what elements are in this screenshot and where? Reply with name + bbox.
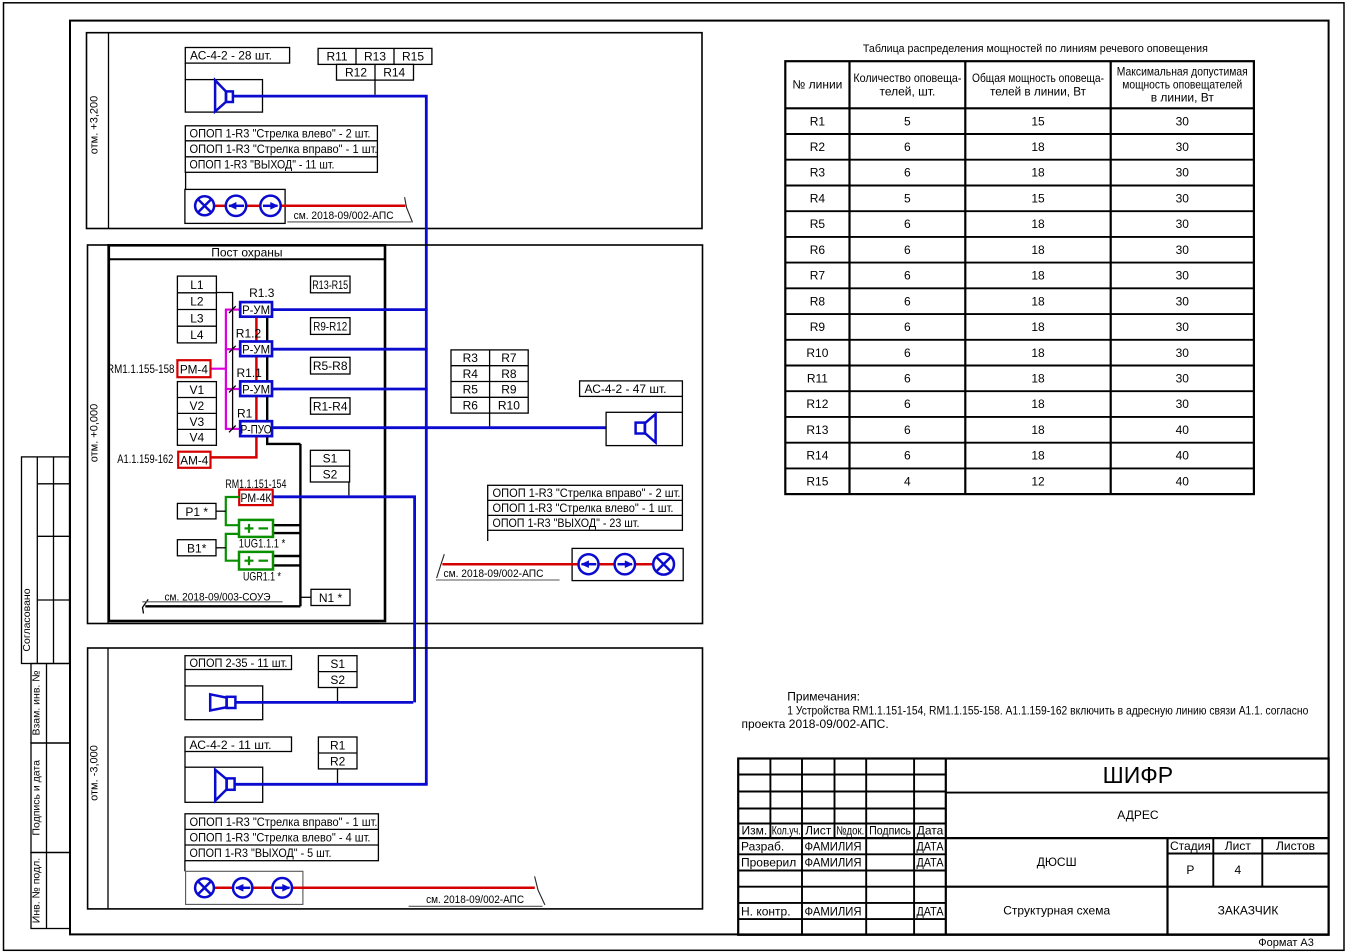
svg-text:R10: R10 [498,399,520,413]
svg-text:RM1.1.151-154: RM1.1.151-154 [225,477,286,491]
label box ОПОП 2-35 - 11 шт. [185,656,292,670]
svg-text:S1: S1 [330,657,345,671]
svg-text:Количество оповеща-: Количество оповеща- [853,71,961,85]
svg-text:L4: L4 [190,328,204,342]
annotation см. 2018-09/003-СОУЭ [142,591,282,603]
svg-text:R13: R13 [806,423,828,437]
svg-text:30: 30 [1176,114,1190,128]
device РМ-4 [177,360,210,377]
svg-text:4: 4 [904,474,911,488]
horn speaker symbol [210,694,235,710]
lamp arrow-left circle (bottom) [233,878,252,897]
svg-text:V4: V4 [190,431,205,445]
svg-text:R13-R15: R13-R15 [312,278,348,292]
svg-text:ОПОП 1-R3 "ВЫХОД" - 23 шт.: ОПОП 1-R3 "ВЫХОД" - 23 шт. [493,516,640,530]
svg-text:30: 30 [1176,217,1190,231]
light indicators box (bottom) [186,871,303,904]
svg-text:Р-УМ: Р-УМ [242,383,270,397]
svg-text:6: 6 [904,166,911,180]
svg-text:Р-УМ: Р-УМ [242,303,270,317]
svg-text:R6: R6 [463,399,479,413]
block +3,200 frame [87,33,703,229]
node N1 [311,589,350,605]
svg-text:6: 6 [904,269,911,283]
svg-text:6: 6 [904,423,911,437]
svg-text:ФАМИЛИЯ: ФАМИЛИЯ [805,840,862,854]
label box АС-4-2 - 11 шт. [185,737,292,752]
node L1-L4 [177,276,216,343]
table header texts [792,65,1247,105]
svg-text:30: 30 [1176,397,1190,411]
svg-text:АС-4-2 - 28 шт.: АС-4-2 - 28 шт. [190,49,272,63]
svg-text:5: 5 [904,114,911,128]
svg-text:18: 18 [1031,372,1045,386]
node R13-R15 [311,276,351,293]
title block header labels [741,824,943,838]
svg-text:R14: R14 [383,65,405,79]
wire blue out УМ1 [272,308,428,311]
svg-text:ДАТА: ДАТА [917,904,944,918]
break mark (middle) [437,554,445,578]
svg-text:5: 5 [904,192,911,206]
svg-text:R7: R7 [501,351,517,365]
svg-text:см. 2018-09/002-АПС: см. 2018-09/002-АПС [426,894,524,906]
svg-text:ФАМИЛИЯ: ФАМИЛИЯ [805,856,862,870]
amplifier Р-УМ R1.2 [240,342,272,357]
svg-text:Подпись и дата: Подпись и дата [30,760,42,836]
svg-text:Таблица распределения мощносте: Таблица распределения мощностей по линия… [863,43,1208,55]
svg-text:L1: L1 [190,278,204,292]
svg-text:12: 12 [1031,474,1045,488]
svg-text:АМ-4: АМ-4 [180,454,208,468]
svg-text:6: 6 [904,243,911,257]
device АМ-4 [178,452,210,468]
wire fire line (red, top) [214,205,405,208]
amplifier Р-УМ R1.3 [240,302,272,317]
svg-text:Общая мощность оповеща-: Общая мощность оповеща- [972,71,1104,85]
svg-text:V3: V3 [190,415,205,429]
block +0,000 frame [88,245,703,624]
cone speaker box (bottom) [185,767,263,802]
annotation см. 2018-09/002-АПС (middle) [436,568,560,580]
speaker box 47 [606,412,682,445]
node R12 R14 [337,64,414,80]
wire cone speaker line (bottom) [234,783,428,786]
svg-text:R7: R7 [810,269,826,283]
left part verticals (upper rows) [769,759,771,839]
svg-text:Р: Р [1186,863,1194,877]
wire L1 to amp chain [216,293,232,429]
svg-text:R5: R5 [463,383,479,397]
svg-text:R14: R14 [806,449,828,463]
svg-text:№ линии: № линии [792,78,842,92]
lamp arrow-right circle [260,196,280,216]
svg-text:B1*: B1* [187,541,207,555]
svg-text:отм. +0,000: отм. +0,000 [89,404,101,463]
wire blue out УМ2 [272,348,428,351]
svg-text:ЗАКАЗЧИК: ЗАКАЗЧИК [1218,904,1279,918]
svg-text:30: 30 [1176,243,1190,257]
svg-text:R9-R12: R9-R12 [313,320,347,334]
svg-text:Структурная схема: Структурная схема [1003,904,1110,918]
svg-text:Изм.: Изм. [741,824,767,838]
svg-text:18: 18 [1031,140,1045,154]
wire r-puo black riser [267,318,300,444]
svg-text:40: 40 [1176,474,1190,488]
break mark (bottom) [535,876,545,905]
wire R-boxes to line [374,80,376,95]
svg-text:АДРЕС: АДРЕС [1117,808,1159,822]
speaker LS2 (cone, mirrored) [636,414,656,443]
left margin stamp: Инв. № подл. [30,853,70,929]
device РМ-4К [239,490,273,506]
svg-text:ДАТА: ДАТА [917,840,944,854]
svg-text:R8: R8 [501,367,517,381]
svg-text:R1: R1 [237,406,253,420]
wire S2 to РМ-4К line [348,482,350,495]
svg-text:АС-4-2 - 47 шт.: АС-4-2 - 47 шт. [585,382,667,396]
svg-text:30: 30 [1176,346,1190,360]
svg-text:4: 4 [1234,863,1241,877]
cabinet Пост охраны [109,245,385,621]
wire black bus to green units [299,444,301,606]
label boxes ОПОП 1-R3 (bottom) [185,814,378,861]
svg-text:L2: L2 [190,295,204,309]
wire blue out УМ3 [272,388,428,391]
svg-text:R9: R9 [501,383,517,397]
svg-text:ОПОП 1-R3 "ВЫХОД" - 11 шт.: ОПОП 1-R3 "ВЫХОД" - 11 шт. [190,158,335,172]
svg-text:телей в линии, Вт: телей в линии, Вт [990,85,1086,99]
svg-text:Формат А3: Формат А3 [1258,937,1314,949]
svg-text:R5-R8: R5-R8 [313,359,348,373]
svg-text:см. 2018-09/002-АПС: см. 2018-09/002-АПС [294,210,394,222]
table rows [785,114,1254,488]
annotation см. 2018-09/002-АПС (bottom) [409,894,543,906]
svg-text:1 Устройства RM1.1.151-154, RM: 1 Устройства RM1.1.151-154, RM1.1.155-15… [787,704,1308,718]
svg-text:ОПОП 2-35 - 11 шт.: ОПОП 2-35 - 11 шт. [190,656,288,670]
svg-text:18: 18 [1031,346,1045,360]
svg-text:RM1.1.155-158: RM1.1.155-158 [107,362,175,376]
svg-text:Примечания:: Примечания: [787,690,860,704]
svg-text:15: 15 [1031,192,1045,206]
svg-text:ОПОП 1-R3 "Стрелка влево" - 4: ОПОП 1-R3 "Стрелка влево" - 4 шт. [190,831,371,845]
svg-text:R11: R11 [807,372,828,386]
svg-text:V2: V2 [190,399,205,413]
stub under ОПОП (middle right) [487,530,489,541]
lamp arrow-right circle (middle) [615,554,635,574]
wire R3-R10 to line [489,413,491,426]
svg-text:18: 18 [1031,269,1045,283]
unit 1UG1.1.1 (+/-) [239,520,273,537]
svg-text:6: 6 [904,372,911,386]
lamp arrow-right circle (bottom) [272,878,292,898]
wire РМ-4 stub [211,368,227,370]
svg-text:РМ-4К: РМ-4К [241,491,272,505]
wire opop to light box (bottom) [184,861,186,872]
label box АС-4-2 - 47 шт. [580,381,683,397]
svg-text:30: 30 [1176,166,1190,180]
svg-text:проекта 2018-09/002-АПС.: проекта 2018-09/002-АПС. [742,717,889,731]
title block signature rows [741,840,944,919]
right part [946,792,1329,794]
svg-text:L3: L3 [190,311,204,325]
svg-text:отм. -3,000: отм. -3,000 [89,745,101,801]
node P1 [177,503,216,519]
svg-text:S2: S2 [323,467,338,481]
svg-text:Пост охраны: Пост охраны [211,245,282,259]
unit UGR1.1 (+/-) [239,552,273,570]
svg-text:R1-R4: R1-R4 [313,399,348,413]
speaker LS1 (cone) [215,80,233,111]
svg-text:Р-УМ: Р-УМ [242,343,270,357]
svg-text:V1: V1 [190,383,205,397]
svg-text:ФАМИЛИЯ: ФАМИЛИЯ [805,904,862,918]
svg-text:R2: R2 [810,140,826,154]
title block frame [738,759,1328,935]
lamp HL1 crossed circle [195,196,214,215]
svg-text:R1: R1 [330,738,346,752]
svg-text:отм. +3,200: отм. +3,200 [89,96,101,155]
wire fire line (red, middle) [442,563,653,566]
svg-text:R5: R5 [810,217,826,231]
svg-text:R3: R3 [810,166,826,180]
wire opop to light box [185,172,187,189]
break mark (top right) [405,197,413,222]
lamp arrow-left circle [226,196,246,216]
node V1-V4 [177,382,216,446]
svg-text:телей, шт.: телей, шт. [879,85,935,99]
svg-text:18: 18 [1031,423,1045,437]
wire СОУЭ line [145,605,300,607]
svg-text:R3: R3 [463,351,479,365]
label boxes ОПОП 1-R3 (top) [185,126,377,173]
wire ug pins [273,524,300,526]
svg-text:30: 30 [1176,192,1190,206]
wire fire line (red, bottom) [214,887,535,890]
svg-text:18: 18 [1031,449,1045,463]
svg-text:см. 2018-09/002-АПС: см. 2018-09/002-АПС [444,568,544,580]
svg-text:ОПОП 1-R3 "Стрелка влево" - 2: ОПОП 1-R3 "Стрелка влево" - 2 шт. [190,126,371,140]
svg-text:R1.3: R1.3 [249,286,275,300]
node R5-R8 [311,357,351,374]
svg-text:мощность оповещателей: мощность оповещателей [1122,78,1242,92]
svg-text:R8: R8 [810,294,826,308]
label boxes ОПОП 1-R3 (middle right) [488,485,683,530]
svg-text:Лист: Лист [1225,839,1252,853]
svg-text:R4: R4 [463,367,479,381]
svg-text:Стадия: Стадия [1170,839,1211,853]
node R3-R10 matrix [451,350,528,413]
svg-text:ДЮСШ: ДЮСШ [1037,855,1077,869]
svg-text:40: 40 [1176,423,1190,437]
svg-text:R12: R12 [345,65,367,79]
svg-text:30: 30 [1176,372,1190,386]
svg-text:Р-ПУО: Р-ПУО [241,422,272,436]
svg-text:Подпись: Подпись [869,824,911,838]
horn speaker box [185,686,263,720]
wire speaker line R11-R15 [233,96,427,784]
wire green РМ-4К to 1UG [226,497,239,525]
wire РМ-4К blue to lower blocks [273,497,415,703]
svg-text:R1.1: R1.1 [237,366,263,380]
svg-text:R1.2: R1.2 [236,326,262,340]
wire am-4 red riser [211,318,257,458]
wire B1 stub [216,547,226,549]
svg-text:R13: R13 [364,50,386,64]
light indicators box (middle right) [572,548,683,580]
svg-text:Максимальная допустимая: Максимальная допустимая [1117,65,1248,79]
notes Примечания [742,690,1309,732]
svg-text:P1 *: P1 * [185,505,208,519]
label box АС-4-2 - 28 шт. [185,48,289,64]
svg-text:Листов: Листов [1276,839,1315,853]
svg-text:40: 40 [1176,449,1190,463]
svg-text:Дата: Дата [917,824,944,838]
svg-text:R11: R11 [326,50,347,64]
svg-text:30: 30 [1176,140,1190,154]
svg-text:R6: R6 [810,243,826,257]
svg-text:R12: R12 [806,397,828,411]
node R1-R4 [311,398,351,414]
svg-text:в линии, Вт: в линии, Вт [1151,91,1215,105]
svg-text:ОПОП 1-R3 "ВЫХОД" - 5 шт.: ОПОП 1-R3 "ВЫХОД" - 5 шт. [190,846,332,860]
group marks on magenta stubs [229,306,236,313]
wire S2 stub (bottom) [337,688,339,702]
speaker box [185,80,262,113]
svg-text:1UG1.1.1 *: 1UG1.1.1 * [239,537,286,551]
svg-text:ШИФР: ШИФР [1103,762,1173,788]
left margin stamp: Взам. инв. № [30,664,70,744]
svg-text:30: 30 [1176,320,1190,334]
svg-text:N1 *: N1 * [319,591,343,605]
svg-text:S1: S1 [323,452,338,466]
block -3,000 frame [88,648,703,909]
svg-text:Взам. инв. №: Взам. инв. № [30,670,42,735]
svg-text:R2: R2 [330,754,346,768]
svg-text:6: 6 [904,346,911,360]
power distribution table [785,61,1254,494]
svg-text:18: 18 [1031,320,1045,334]
wire P1 stub [216,510,226,512]
svg-text:30: 30 [1176,269,1190,283]
node R11 R13 R15 [318,48,432,64]
svg-text:Н. контр.: Н. контр. [741,904,791,918]
svg-text:АС-4-2 - 11 шт.: АС-4-2 - 11 шт. [190,738,272,752]
svg-text:R9: R9 [810,320,826,334]
light indicators box (top) [185,189,285,223]
svg-text:R4: R4 [810,192,826,206]
node R1 R2 (bottom) [318,737,357,769]
amplifier Р-УМ R1.1 [240,381,272,396]
svg-text:Инв. № подл.: Инв. № подл. [30,858,42,923]
svg-text:ОПОП 1-R3 "Стрелка вправо" - 1: ОПОП 1-R3 "Стрелка вправо" - 1 шт. [190,815,378,829]
svg-text:R15: R15 [402,50,424,64]
svg-text:6: 6 [904,217,911,231]
svg-text:6: 6 [904,449,911,463]
svg-text:Согласовано: Согласовано [21,588,33,651]
speaker LS3 (cone) [215,770,234,801]
svg-text:Лист: Лист [805,824,832,838]
svg-text:РМ-4: РМ-4 [180,363,208,377]
svg-text:R15: R15 [806,474,828,488]
svg-text:ОПОП 1-R3 "Стрелка вправо" - 1: ОПОП 1-R3 "Стрелка вправо" - 1 шт. [190,142,378,156]
wire R2 stub (bottom) [337,769,339,783]
svg-text:18: 18 [1031,166,1045,180]
svg-text:18: 18 [1031,294,1045,308]
svg-text:18: 18 [1031,217,1045,231]
svg-text:ОПОП 1-R3 "Стрелка влево" - 1: ОПОП 1-R3 "Стрелка влево" - 1 шт. [493,501,674,515]
wire to N1 [300,596,311,598]
annotation см. 2018-09/002-АПС (top) [287,210,411,222]
wire green 1UG to UGR [226,534,239,561]
arrow СОУЭ [143,599,149,613]
lamp crossed circle (middle) [653,554,674,575]
svg-text:ДАТА: ДАТА [917,856,944,870]
svg-text:6: 6 [904,320,911,334]
svg-text:6: 6 [904,294,911,308]
left margin stamp: Подпись и дата [30,743,70,853]
node B1 [177,540,216,556]
svg-text:6: 6 [904,140,911,154]
svg-text:Проверил: Проверил [741,856,796,870]
svg-text:18: 18 [1031,243,1045,257]
svg-text:ОПОП 1-R3 "Стрелка вправо" - 2: ОПОП 1-R3 "Стрелка вправо" - 2 шт. [493,486,681,500]
node S1 S2 (middle) [310,450,349,482]
left margin stamp: Согласовано block [21,457,70,664]
svg-text:30: 30 [1176,294,1190,308]
svg-text:R1: R1 [810,114,826,128]
node R9-R12 [311,318,351,335]
svg-text:Кол.уч.: Кол.уч. [772,824,801,838]
lamp arrow-left circle (middle) [579,554,599,574]
lamp crossed circle (bottom) [195,878,214,897]
svg-text:18: 18 [1031,397,1045,411]
svg-text:15: 15 [1031,114,1045,128]
control unit Р-ПУО R1 [240,421,272,436]
svg-text:R10: R10 [806,346,828,360]
svg-text:A1.1.159-162: A1.1.159-162 [117,452,173,466]
svg-text:№док.: №док. [836,824,864,838]
svg-text:6: 6 [904,397,911,411]
wire blue out ПУО to speaker 47 [272,426,636,429]
wire horn speaker line [235,701,413,704]
svg-text:UGR1.1 *: UGR1.1 * [243,570,281,584]
svg-text:S2: S2 [330,673,345,687]
wire magenta riser РМ-4 [225,310,227,429]
left part horizontals [738,774,946,776]
node S1 S2 (bottom) [318,656,357,688]
svg-text:Разраб.: Разраб. [741,840,784,854]
